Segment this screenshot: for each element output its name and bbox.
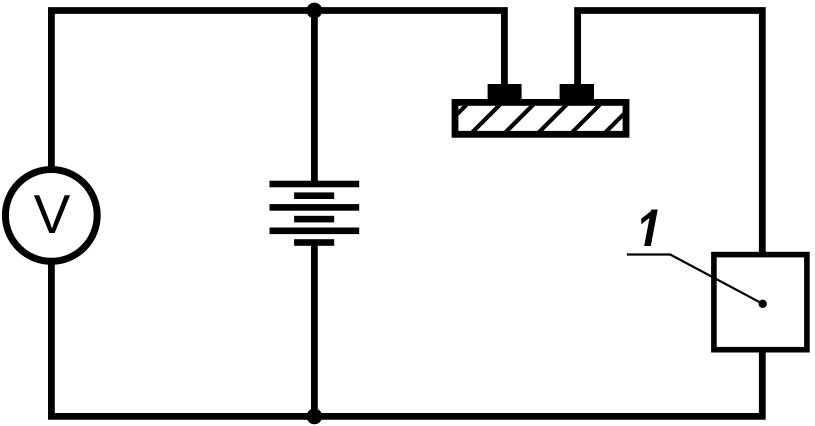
leader dot (759, 300, 767, 308)
wire top-left loop: voltmeter top, top rail, down to left contact of sample (51, 11, 504, 170)
node junction top (307, 3, 323, 19)
svg-text:V: V (34, 183, 71, 245)
wire battery top (311, 11, 318, 185)
battery GB short plate 2 (294, 216, 334, 223)
battery GB long plate 2 (270, 204, 360, 211)
voltmeter V circle (5, 170, 97, 262)
hatch lines of sample (430, 95, 643, 141)
battery GB long plate 1 (270, 181, 360, 188)
semiconductor sample body (hatched bar) (455, 102, 626, 134)
component box 1 (photocell) (714, 255, 807, 350)
left electrode contact (488, 84, 522, 100)
wire bottom loop: voltmeter bottom, bottom rail, up to box bottom (51, 262, 762, 416)
node junction bottom (307, 409, 323, 425)
label 1 (641, 210, 657, 247)
wire right contact to top rail right segment down right side to box top (578, 11, 763, 255)
wire battery bottom (311, 243, 318, 417)
leader line for label 1 (627, 255, 763, 304)
battery GB long plate 3 (270, 228, 360, 235)
right electrode contact (560, 84, 594, 100)
battery GB short plate 1 (294, 192, 334, 199)
battery GB short plate 3 (294, 239, 334, 246)
